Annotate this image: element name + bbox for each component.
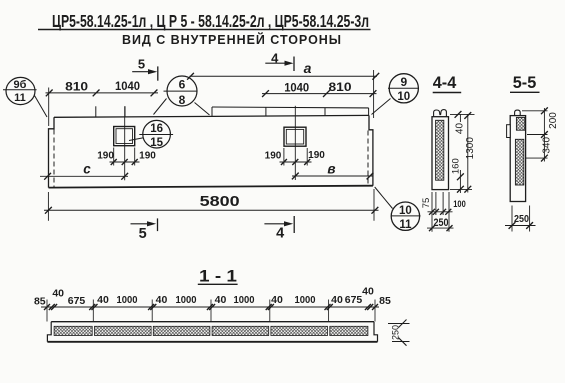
leader 10/11 [375,187,393,209]
panel top edge [54,115,369,117]
svg-text:5-5: 5-5 [513,73,537,92]
svg-text:190: 190 [139,150,156,161]
svg-text:1000: 1000 [295,294,316,306]
panel bottom edge [49,186,373,188]
leader 6/8 right [195,103,210,116]
band end verticals [211,107,213,116]
opening 2 dim 190+190 [265,148,326,166]
section 1-1 slab top edge [51,321,374,323]
panel left end profile [49,117,55,187]
extension line right [373,70,375,118]
dimension 810 (top left) [46,81,159,96]
dimension c (left) [40,162,128,180]
opening 2 outer frame [284,127,306,146]
section 5-5 top bump [515,110,521,116]
dimension 1040 (top right) [262,82,377,97]
section 1-1 slab bottom edge [47,341,377,343]
section 1-1 dimension chain [34,285,391,321]
top edge tick 1 [95,106,97,116]
svg-text:675: 675 [345,294,363,306]
svg-text:40: 40 [156,294,168,306]
section 4-4 bottom dims [421,192,466,232]
dimension line a [187,60,379,80]
svg-text:85: 85 [379,295,391,307]
svg-text:5800: 5800 [200,193,240,210]
svg-text:40: 40 [52,287,64,299]
section 4-4 right dims [450,111,476,193]
svg-text:810: 810 [65,81,88,93]
svg-text:9б: 9б [14,79,27,91]
panel right dashed groove line [367,131,369,186]
svg-text:10: 10 [399,205,412,217]
section mark 5 (bottom) [131,218,158,242]
leader 9/10 [372,99,391,115]
svg-text:40: 40 [271,294,283,306]
opening 1 centerline [124,106,126,180]
opening 2 inner frame [286,129,303,144]
section 1-1 thickness dim 250 [388,320,410,346]
svg-text:75: 75 [421,198,432,209]
svg-text:в: в [327,161,335,176]
svg-text:5: 5 [138,57,145,72]
svg-text:1000: 1000 [117,294,138,306]
svg-text:85: 85 [34,295,46,307]
section 1-1 slab left end [47,322,51,342]
section mark 4 (bottom) [264,216,294,241]
opening 1 outer frame [114,127,135,146]
position circle 9/10 [372,74,419,115]
section 5-5 bottom dim 250 [505,206,536,232]
dimension в (right) [292,161,374,179]
section 5-5 right dims [522,107,559,161]
section 5-5 upper hatch block [516,117,525,130]
svg-text:190: 190 [97,150,114,161]
opening 2 centerline [294,106,296,180]
svg-text:340: 340 [542,137,553,154]
band divider 2 [324,108,326,116]
svg-text:40: 40 [97,294,109,306]
svg-text:ВИД С ВНУТРЕННЕЙ СТОРОНЫ: ВИД С ВНУТРЕННЕЙ СТОРОНЫ [122,32,341,47]
svg-text:190: 190 [308,150,325,161]
svg-text:250: 250 [390,325,400,340]
svg-text:1300: 1300 [465,137,476,160]
svg-text:9: 9 [400,75,407,89]
svg-text:1000: 1000 [176,294,197,306]
svg-text:160: 160 [451,158,462,174]
svg-text:675: 675 [68,295,86,307]
opening 1 inner frame [116,129,133,144]
svg-text:1040: 1040 [284,82,309,94]
section 1-1 title [198,268,238,286]
section 5-5 title [510,73,540,92]
svg-text:a: a [304,60,312,76]
leader 6/8 left [154,99,167,115]
dimension 5800 [44,189,379,221]
panel right end profile [369,115,373,185]
section 4-4 top bump [434,110,447,117]
band divider 1 [265,107,267,116]
position circle 9б/11 [3,77,47,117]
section 1-1 insulation segments [54,326,368,335]
panel top band upper line [212,106,369,109]
svg-text:16: 16 [150,123,163,135]
position circle 10/11 [375,187,421,231]
svg-text:250: 250 [434,217,449,229]
leader 16/15 [129,138,144,141]
section 1-1 slab right end [374,322,378,342]
svg-text:1 - 1: 1 - 1 [199,268,237,286]
section mark 4 (top) [265,51,294,72]
svg-text:40: 40 [362,285,374,297]
section mark 5 (top) [132,57,158,81]
svg-text:40: 40 [455,123,466,135]
top edge tick 2 [124,106,126,117]
svg-text:ЦР5-58.14.25-1л , Ц Р 5 - 58.: ЦР5-58.14.25-1л , Ц Р 5 - 58.14.25-2л , … [52,11,369,31]
opening 1 dim 190+190 [97,148,156,166]
position circle 6/8 [154,76,210,115]
svg-text:1040: 1040 [115,81,140,93]
svg-text:250: 250 [514,213,529,225]
svg-text:1000: 1000 [234,294,255,306]
svg-text:190: 190 [265,151,282,162]
section 5-5 insulation hatch [515,139,523,185]
title line 1: panel marks [38,11,371,31]
section 4-4 title [433,73,462,93]
svg-text:4-4: 4-4 [433,73,457,92]
svg-text:15: 15 [150,137,163,149]
svg-text:6: 6 [179,78,186,92]
section 5-5 outline [510,116,525,202]
svg-text:11: 11 [399,219,412,231]
svg-text:40: 40 [215,294,227,306]
svg-text:10: 10 [397,91,410,103]
svg-text:40: 40 [331,294,343,306]
svg-text:810: 810 [329,82,352,94]
svg-text:с: с [83,162,91,177]
panel left dashed groove line [53,130,55,188]
svg-text:4: 4 [276,225,284,241]
svg-text:8: 8 [179,93,186,107]
section 4-4 insulation hatch [436,120,444,180]
section 5-5 left notch [507,125,511,138]
svg-text:200: 200 [548,112,559,129]
section 4-4 outline [432,117,449,190]
svg-text:5: 5 [139,226,147,242]
extension line left [48,88,50,127]
svg-text:100: 100 [453,199,466,210]
position circle 16/15 [129,120,173,149]
svg-text:11: 11 [14,92,26,104]
